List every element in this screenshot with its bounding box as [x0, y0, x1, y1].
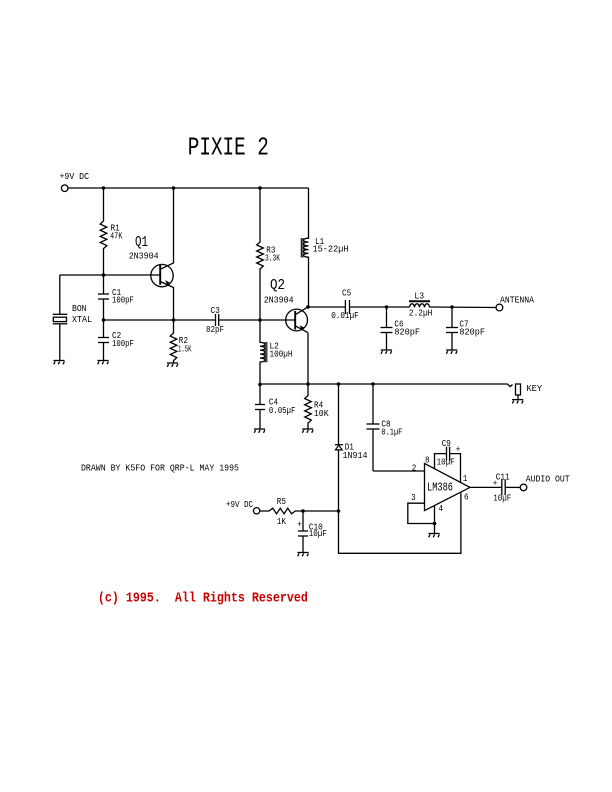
svg-text:82pF: 82pF	[206, 324, 224, 335]
terminal +9V DC (top)	[60, 171, 90, 191]
svg-text:4: 4	[439, 503, 444, 514]
svg-text:10µF: 10µF	[309, 528, 327, 539]
pin 4 label	[439, 503, 444, 514]
pin 2 label	[412, 462, 417, 473]
node base-R1/C1 junction	[102, 273, 106, 277]
svg-text:15-22µH: 15-22µH	[313, 244, 349, 255]
svg-text:DRAWN BY K5FO FOR QRP-L MAY 19: DRAWN BY K5FO FOR QRP-L MAY 1995	[81, 463, 239, 474]
capacitor C8 0.1uF	[367, 384, 403, 471]
wire mid node (Q1 emitter to C3)	[104, 319, 216, 321]
ground (pin 4)	[428, 524, 439, 538]
wire pin4 lead	[434, 506, 436, 524]
svg-text:2.2µH: 2.2µH	[409, 308, 433, 319]
wire C9 to pin1	[450, 454, 461, 483]
svg-text:1N914: 1N914	[343, 450, 368, 461]
resistor R1 47K	[100, 188, 123, 275]
capacitor C11 10uF	[493, 472, 512, 504]
svg-text:Q1: Q1	[135, 235, 148, 251]
wire pin8 to C9 box	[435, 454, 447, 469]
node rail-R3 junction	[258, 186, 262, 190]
svg-text:BON: BON	[72, 303, 87, 314]
svg-text:100pF: 100pF	[112, 295, 134, 306]
wire mid node (C3 to Q2 base)	[219, 319, 295, 321]
svg-text:C11: C11	[496, 472, 510, 483]
svg-text:820pF: 820pF	[394, 326, 420, 337]
svg-text:LM386: LM386	[427, 480, 453, 494]
node pin3/pin4 junction	[433, 522, 437, 526]
wire LM386 output	[470, 486, 502, 488]
svg-text:L3: L3	[414, 290, 424, 301]
capacitor C3 82pF	[206, 305, 224, 335]
pin 1 label	[463, 473, 468, 484]
wire C8 to pin2	[373, 470, 425, 472]
wire Q2 emitter lead	[307, 333, 309, 384]
capacitor C1 100pF	[98, 275, 134, 320]
node Q2 collector / L1 junction	[306, 305, 310, 309]
svg-text:2N3904: 2N3904	[264, 295, 294, 306]
wire R5 to D1 branch	[303, 510, 339, 512]
ground (R4)	[302, 429, 313, 433]
node R3/L2/Q2-base junction	[258, 318, 262, 322]
capacitor C2 100pF	[98, 320, 134, 361]
ground (C6)	[381, 350, 392, 354]
svg-text:+9V DC: +9V DC	[226, 499, 253, 510]
node rail-R1 junction	[102, 186, 106, 190]
svg-text:2N3904: 2N3904	[129, 251, 159, 262]
ground (C7)	[446, 350, 457, 354]
svg-text:2: 2	[412, 462, 417, 473]
svg-text:0.1µF: 0.1µF	[381, 426, 402, 437]
wire L3 to antenna	[430, 306, 497, 309]
resistor R5 1K	[260, 496, 303, 527]
inductor L2 100uH	[260, 320, 293, 384]
pin 3 label	[411, 492, 416, 503]
svg-text:8: 8	[425, 454, 430, 465]
node Q1 emitter / R2 junction	[172, 318, 176, 322]
capacitor C6 820pF	[381, 307, 421, 350]
node C7 junction	[450, 305, 454, 309]
capacitor C4 0.05uF	[255, 384, 295, 429]
resistor R2 1.5K	[170, 320, 192, 363]
terminal AUDIO OUT	[520, 474, 570, 491]
op-amp U1 LM386	[425, 463, 471, 510]
wire pin6 supply loop	[339, 493, 461, 554]
svg-text:10K: 10K	[314, 408, 329, 419]
wire Q1 collector lead	[173, 188, 175, 264]
inductor L1 15-22uH	[301, 188, 348, 307]
svg-text:C9: C9	[442, 438, 451, 449]
svg-text:KEY: KEY	[526, 383, 542, 394]
node rail-Q1 collector junction	[172, 186, 176, 190]
svg-text:+9V DC: +9V DC	[60, 171, 90, 182]
node C8 junction	[371, 382, 375, 386]
svg-text:+: +	[297, 519, 302, 530]
key jack J1	[516, 383, 543, 399]
node D1 junction	[337, 382, 341, 386]
resistor R3 3.3K	[257, 188, 281, 320]
svg-text:+: +	[493, 478, 498, 489]
node C4/L2 junction	[258, 383, 262, 387]
ground (C2)	[97, 361, 108, 365]
svg-text:6: 6	[464, 492, 469, 503]
svg-text:100pF: 100pF	[112, 338, 134, 349]
ground (crystal)	[53, 361, 64, 365]
node C6 junction	[385, 305, 389, 309]
capacitor C9 10uF	[437, 438, 461, 467]
wire Q1 emitter lead	[173, 287, 175, 320]
ground (key)	[512, 400, 523, 404]
svg-text:1K: 1K	[277, 516, 287, 527]
pin 8 label	[425, 454, 430, 465]
svg-text:3.3K: 3.3K	[265, 253, 280, 264]
transistor Q1 2N3904	[129, 235, 174, 288]
node C10 junction	[301, 509, 305, 513]
title PIXIE 2	[188, 134, 269, 163]
wire top rail +9V	[68, 187, 309, 189]
svg-text:R5: R5	[277, 496, 286, 507]
svg-text:AUDIO OUT: AUDIO OUT	[526, 474, 570, 485]
svg-text:0.01µF: 0.01µF	[331, 310, 359, 321]
terminal +9V DC (audio supply)	[226, 499, 260, 514]
svg-text:3: 3	[411, 492, 416, 503]
terminal ANTENNA	[496, 294, 534, 311]
svg-text:1: 1	[463, 473, 468, 484]
node Q2 emitter / R4 junction	[306, 382, 310, 386]
capacitor C5 0.01uF	[331, 288, 359, 321]
svg-text:C5: C5	[342, 288, 351, 299]
svg-text:820pF: 820pF	[459, 326, 485, 337]
wire Q1 base	[60, 274, 160, 276]
wire pin3 loop	[408, 503, 435, 523]
wire key line	[260, 383, 508, 385]
ground (C10)	[297, 553, 308, 557]
wire Q2 collector to C5	[308, 306, 345, 308]
svg-text:PIXIE 2: PIXIE 2	[188, 134, 269, 163]
capacitor C10 10uF	[297, 511, 327, 553]
diode D1 1N914	[335, 384, 368, 511]
svg-text:ANTENNA: ANTENNA	[500, 294, 534, 305]
svg-text:XTAL: XTAL	[72, 314, 92, 325]
wire key squiggle	[508, 384, 513, 387]
svg-text:47K: 47K	[110, 231, 123, 242]
note drawn-by	[81, 463, 239, 474]
crystal Y1 BON XTAL	[53, 275, 92, 361]
svg-text:100µH: 100µH	[270, 349, 293, 360]
note copyright	[98, 591, 308, 607]
inductor L3 2.2uH	[409, 290, 433, 318]
pin 6 label	[464, 492, 469, 503]
wire C5 to L3	[350, 306, 410, 308]
svg-text:0.05µF: 0.05µF	[269, 405, 296, 416]
svg-text:10µF: 10µF	[493, 493, 511, 504]
node D1/supply junction	[337, 509, 341, 513]
transistor Q2 2N3904	[264, 278, 308, 333]
node C1-C2 junction on mid wire	[102, 318, 106, 322]
ground (R2)	[167, 363, 178, 367]
resistor R4 10K	[305, 384, 329, 429]
capacitor C7 820pF	[446, 307, 485, 350]
ground (C4)	[254, 429, 265, 433]
svg-text:1.5K: 1.5K	[178, 343, 192, 354]
wire C11 to terminal	[505, 486, 520, 488]
svg-text:(c) 1995. All Rights Reserved: (c) 1995. All Rights Reserved	[98, 591, 308, 607]
svg-text:10µF: 10µF	[437, 457, 455, 468]
svg-text:C3: C3	[211, 305, 220, 316]
svg-text:Q2: Q2	[270, 278, 285, 294]
